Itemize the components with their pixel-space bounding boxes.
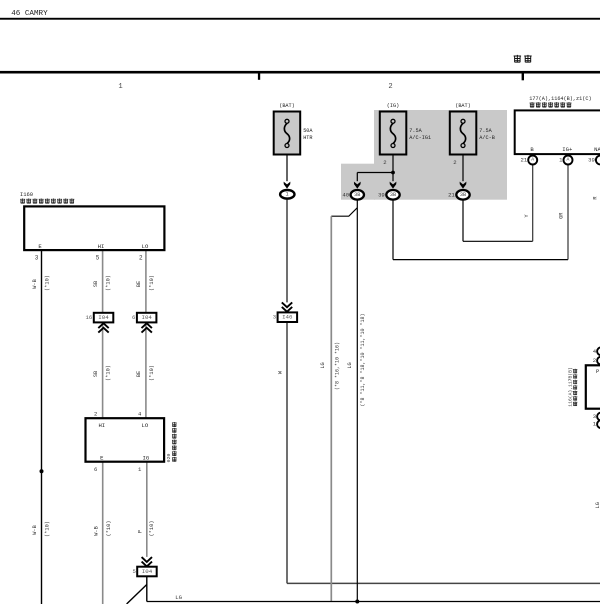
svg-text:(BAT): (BAT) — [279, 103, 295, 109]
svg-text:(*10): (*10) — [149, 275, 155, 291]
svg-text:020: 020 — [166, 454, 172, 463]
svg-text:NA: NA — [594, 146, 600, 153]
svg-text:SB: SB — [93, 371, 99, 377]
svg-text:BE: BE — [136, 371, 142, 377]
svg-text:(*10): (*10) — [45, 275, 51, 291]
svg-text:40: 40 — [342, 191, 349, 198]
svg-text:LO: LO — [142, 243, 149, 250]
svg-text:W-B: W-B — [93, 526, 99, 536]
svg-text:2: 2 — [388, 83, 392, 91]
svg-text:P: P — [596, 369, 599, 375]
svg-text:LG: LG — [175, 594, 182, 601]
svg-text:177(A),1164(B),z1(C): 177(A),1164(B),z1(C) — [529, 96, 591, 102]
svg-text:6: 6 — [132, 314, 135, 321]
svg-text:3B: 3B — [354, 192, 360, 198]
svg-text:2: 2 — [94, 410, 97, 417]
svg-text:7.5A: 7.5A — [409, 128, 422, 134]
svg-text:(*10): (*10) — [149, 365, 155, 381]
svg-text:5: 5 — [96, 255, 100, 262]
svg-text:P: P — [137, 530, 143, 533]
svg-text:HI: HI — [98, 243, 105, 250]
svg-text:I160: I160 — [20, 191, 33, 198]
svg-text:SB: SB — [93, 281, 99, 287]
svg-text:GR: GR — [559, 212, 565, 219]
svg-text:W-B: W-B — [32, 279, 38, 289]
svg-text:LG: LG — [347, 362, 353, 368]
svg-text:(IG): (IG) — [387, 103, 399, 109]
svg-text:6: 6 — [94, 466, 97, 473]
svg-text:50A: 50A — [303, 128, 313, 134]
svg-text:(*8 *16,*10 *16): (*8 *16,*10 *16) — [335, 342, 341, 390]
svg-text:A/C-B: A/C-B — [479, 135, 495, 141]
svg-text:3: 3 — [593, 413, 596, 420]
svg-text:7.5A: 7.5A — [479, 128, 492, 134]
svg-text:16: 16 — [85, 314, 92, 321]
svg-text:5: 5 — [132, 568, 135, 575]
svg-text:BE: BE — [136, 281, 142, 287]
svg-text:2: 2 — [383, 159, 386, 166]
svg-text:(*10): (*10) — [106, 275, 112, 291]
svg-text:21: 21 — [448, 191, 455, 198]
svg-text:3B: 3B — [460, 192, 466, 198]
svg-text:A/C-IG1: A/C-IG1 — [409, 135, 431, 141]
svg-text:39: 39 — [588, 157, 595, 164]
svg-text:HI: HI — [98, 422, 105, 429]
svg-text:2: 2 — [593, 357, 596, 364]
svg-text:1: 1 — [285, 192, 288, 198]
svg-text:IG+: IG+ — [562, 146, 573, 153]
svg-text:3: 3 — [273, 314, 276, 321]
svg-text:(*8 *11,*8 *18,*10 *11,*10 *18: (*8 *11,*8 *18,*10 *11,*10 *18) — [360, 313, 366, 406]
svg-text:(*10): (*10) — [106, 365, 112, 381]
svg-text:I04: I04 — [141, 314, 152, 321]
svg-text:3B: 3B — [390, 192, 396, 198]
svg-text:HTR: HTR — [303, 135, 312, 141]
svg-text:W-B: W-B — [32, 525, 38, 535]
svg-text:39: 39 — [378, 191, 385, 198]
svg-text:LO: LO — [142, 422, 149, 429]
svg-text:21: 21 — [520, 157, 527, 164]
svg-text:I04: I04 — [98, 314, 109, 321]
svg-text:2: 2 — [453, 159, 456, 166]
svg-text:(*10): (*10) — [45, 521, 51, 537]
svg-text:LG: LG — [320, 362, 326, 368]
svg-text:3: 3 — [35, 255, 39, 262]
svg-text:(*10): (*10) — [106, 521, 112, 537]
svg-text:116(A),117B(B): 116(A),117B(B) — [567, 367, 573, 407]
svg-text:(*10): (*10) — [149, 521, 155, 537]
svg-text:2: 2 — [139, 255, 143, 262]
svg-text:A: A — [567, 157, 570, 163]
svg-text:(BAT): (BAT) — [455, 103, 471, 109]
svg-text:I04: I04 — [142, 568, 153, 575]
svg-text:1: 1 — [118, 83, 122, 91]
svg-text:LG: LG — [595, 502, 600, 508]
svg-text:I46: I46 — [282, 314, 293, 321]
svg-text:IG: IG — [143, 454, 150, 461]
svg-text:A: A — [531, 157, 534, 163]
svg-text:46 CAMRY: 46 CAMRY — [11, 10, 48, 18]
